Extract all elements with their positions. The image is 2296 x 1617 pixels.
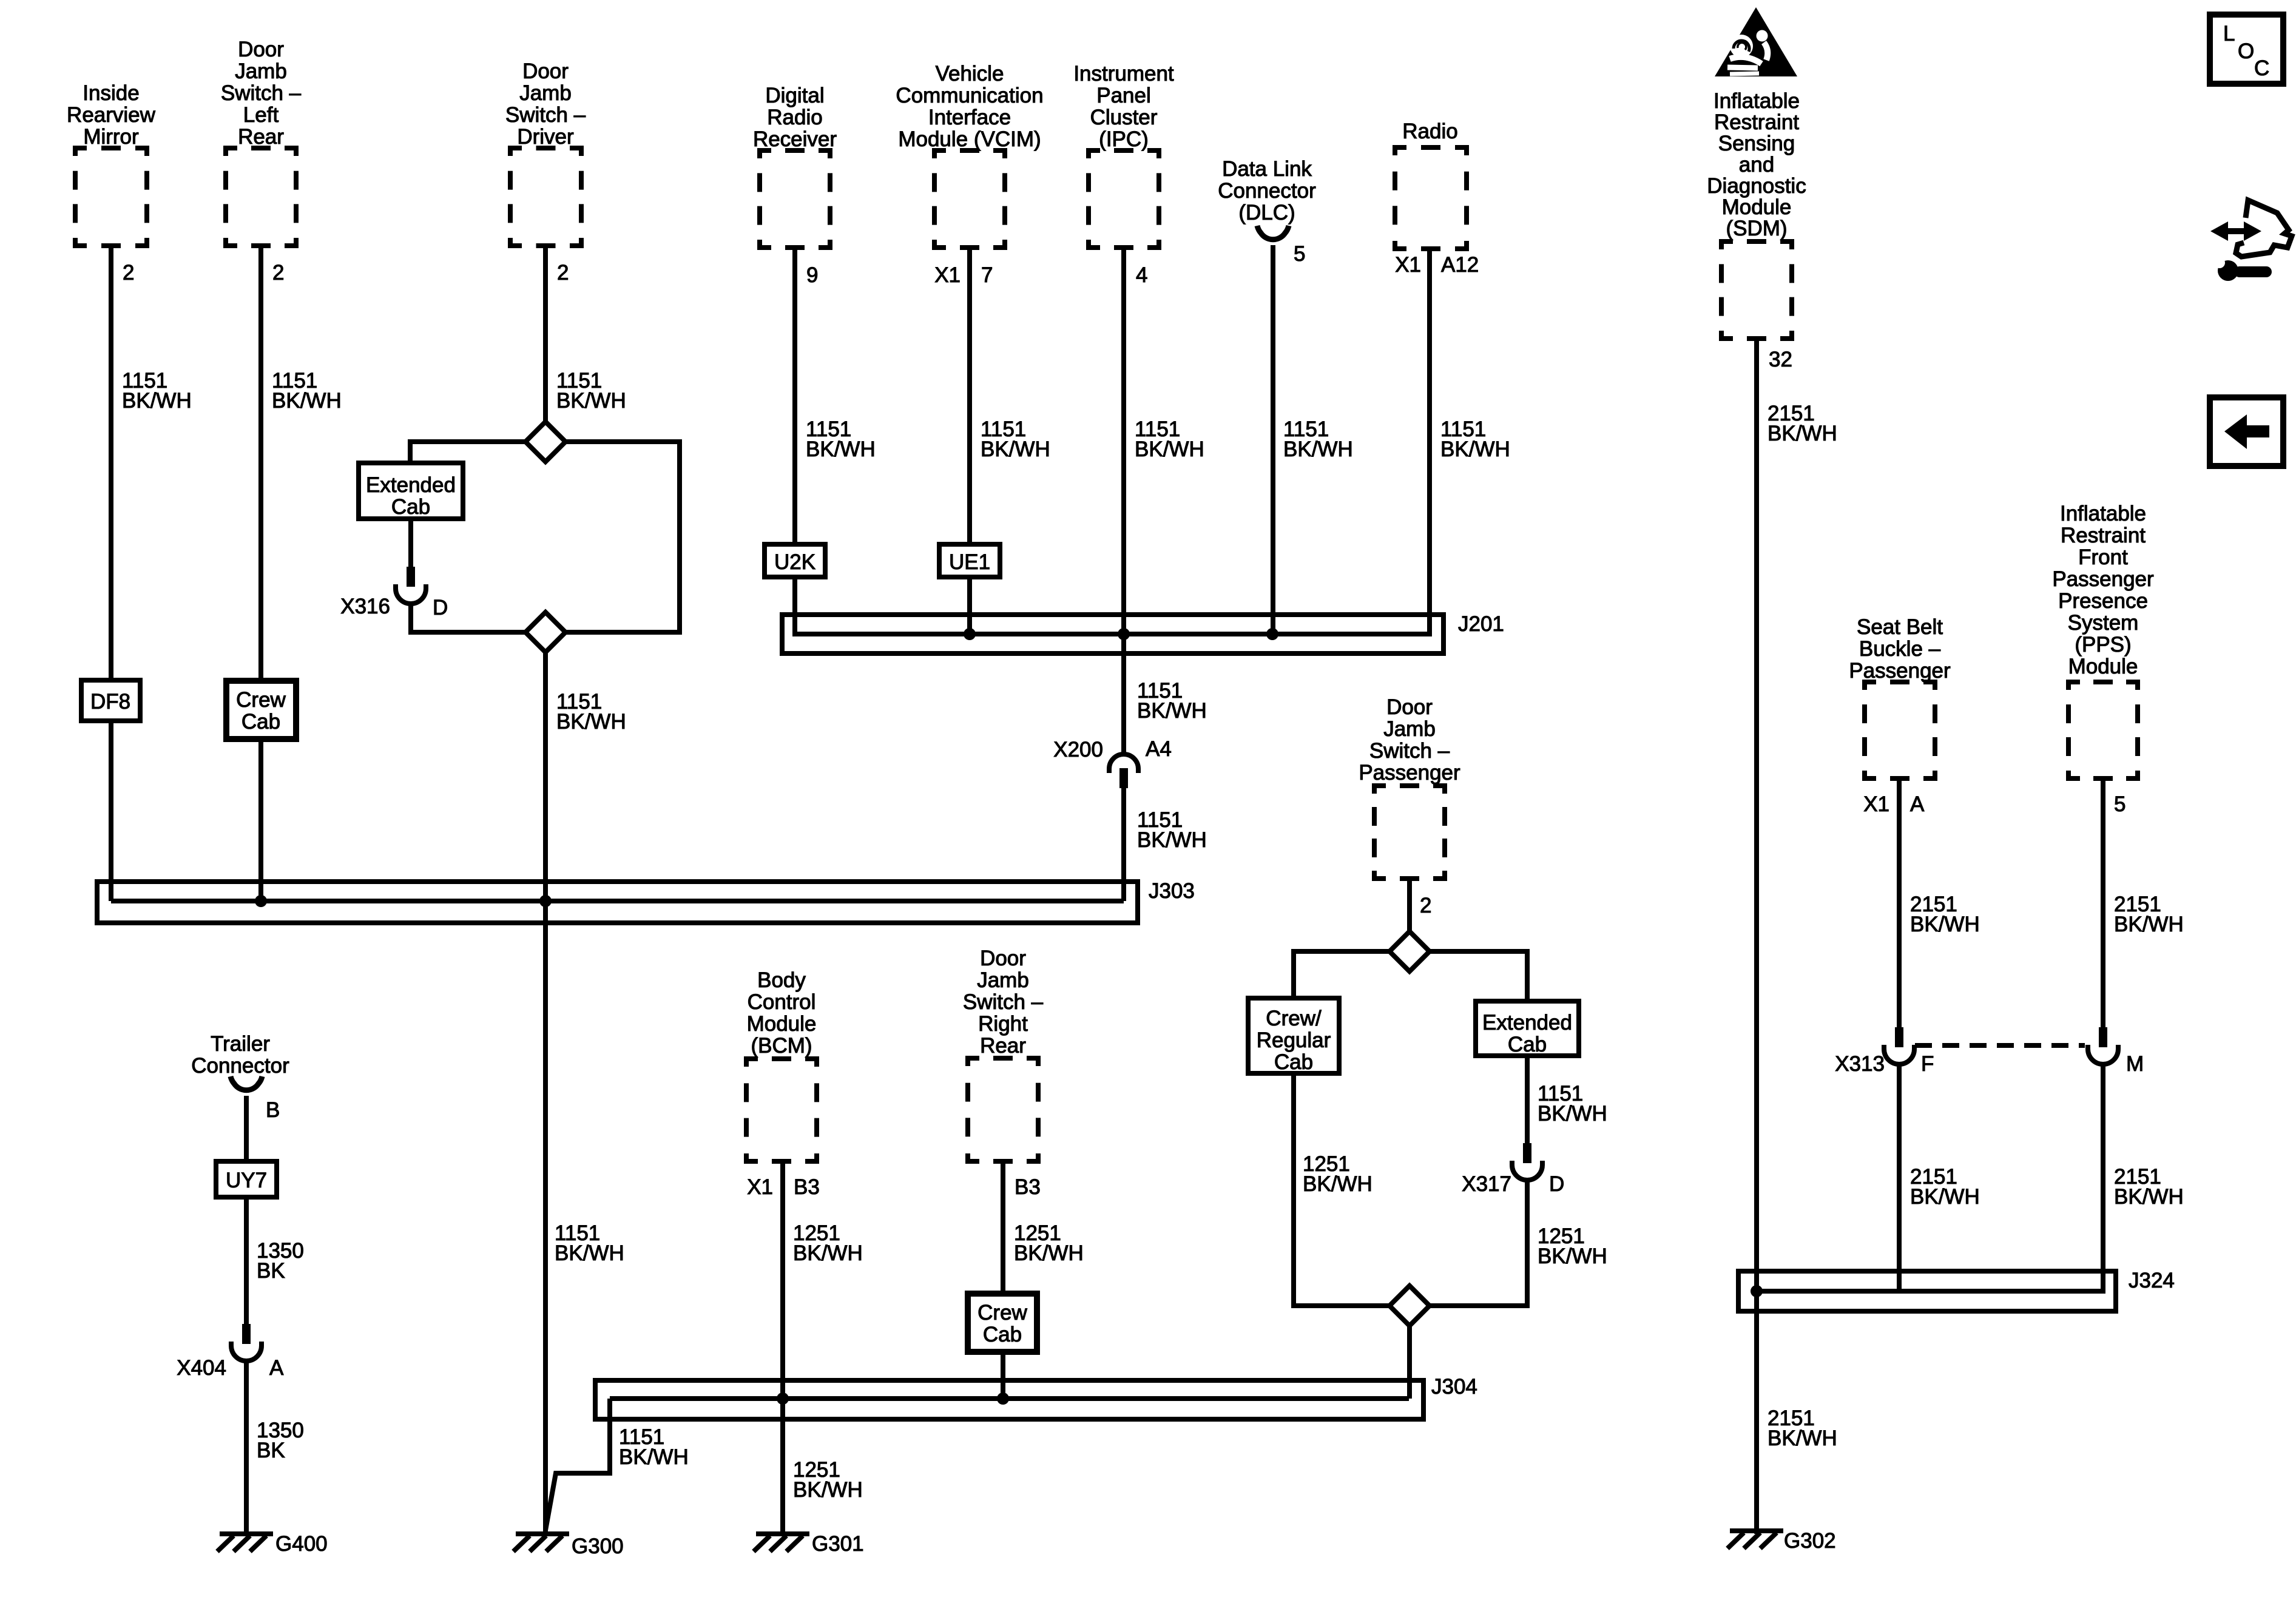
svg-text:C: C [2254,56,2269,80]
svg-text:(PPS): (PPS) [2075,633,2131,657]
svg-text:Presence: Presence [2058,589,2148,613]
svg-text:J303: J303 [1149,879,1195,903]
connector box: Radio [1393,145,1406,150]
connector box: BCM [744,1056,758,1061]
wire: X317 to diamond4 [1430,1178,1527,1306]
svg-text:B3: B3 [1015,1175,1041,1199]
svg-text:Door: Door [238,38,284,61]
svg-text:BK/WH: BK/WH [556,389,626,413]
svg-text:Communication: Communication [896,84,1043,107]
svg-text:Door: Door [980,947,1026,970]
svg-text:Switch –: Switch – [963,990,1044,1014]
connector box: Digital Radio Receiver [757,148,771,153]
svg-text:Extended: Extended [1482,1011,1572,1035]
icon: back arrow box [2210,397,2283,466]
svg-text:Instrument: Instrument [1073,62,1174,86]
svg-text:Seat Belt: Seat Belt [1857,615,1943,639]
svg-text:4: 4 [1136,263,1147,287]
svg-text:UE1: UE1 [949,550,990,574]
bus J324 inner line [1757,1289,2103,1294]
svg-text:Crew/: Crew/ [1266,1007,1322,1030]
svg-text:Regular: Regular [1257,1028,1331,1052]
svg-text:Diagnostic: Diagnostic [1707,174,1806,198]
svg-text:(DLC): (DLC) [1238,201,1295,224]
svg-text:Interface: Interface [928,106,1011,129]
svg-text:BK/WH: BK/WH [2114,913,2184,936]
svg-text:BK/WH: BK/WH [1303,1172,1373,1196]
wire: X316 to diamond2 [411,602,525,632]
svg-text:Digital: Digital [765,84,824,107]
svg-text:Door: Door [522,59,569,83]
svg-text:Passenger: Passenger [2052,567,2154,591]
option box UE1 [939,544,1000,577]
connector box: VCIM [932,148,946,153]
wire: X404 to G400 [244,1359,249,1534]
option box UY7 [216,1161,277,1197]
svg-text:Body: Body [757,968,806,992]
wire: extended cab down to X316 [408,519,413,568]
svg-text:B3: B3 [794,1175,820,1199]
svg-text:X313: X313 [1835,1052,1885,1076]
svg-text:A12: A12 [1441,253,1479,277]
svg-text:BK/WH: BK/WH [1768,422,1837,445]
svg-text:G302: G302 [1784,1529,1836,1553]
svg-text:Jamb: Jamb [235,59,287,83]
svg-text:BK/WH: BK/WH [122,389,192,413]
wire: UY7 to X404 [244,1197,249,1325]
connector box: IPC [1086,148,1100,153]
svg-text:Jamb: Jamb [519,81,572,105]
svg-text:Rear: Rear [238,125,284,149]
wire: PPS to M connector [2101,778,2105,1028]
wire: crew cab down to diamond4 [1294,1073,1389,1306]
svg-text:A: A [269,1356,284,1380]
wire: DRR down to U2K [792,248,797,546]
connector box: Door Jamb Switch - Left Rear [223,146,237,150]
svg-text:and: and [1739,153,1774,177]
svg-text:Crew: Crew [236,688,286,712]
svg-text:BK/WH: BK/WH [1910,913,1980,936]
wire: mirror 1151 BK/WH vertical [109,246,113,901]
svg-text:BK/WH: BK/WH [272,389,342,413]
svg-text:Switch –: Switch – [221,81,302,105]
option box Extended Cab (passenger) [1476,1001,1579,1056]
svg-text:Rear: Rear [980,1034,1026,1058]
option box U2K [765,544,825,577]
wire: driver jamb to splice diamond [543,246,548,422]
connector box: Door Jamb Switch - Passenger [1372,783,1386,788]
svg-text:(SDM): (SDM) [1726,217,1787,240]
svg-text:Connector: Connector [191,1054,289,1078]
connector box: Door Jamb Switch - Driver [508,146,522,150]
svg-text:BK/WH: BK/WH [1014,1241,1084,1265]
svg-text:Inside: Inside [83,81,139,105]
svg-text:Radio: Radio [767,106,822,129]
wire: diamond1 left branch [410,442,525,463]
wire: U2K to J201 [795,578,816,634]
svg-text:Front: Front [2078,545,2128,569]
svg-text:Restraint: Restraint [1714,110,1799,134]
option box Crew Cab (right rear) [968,1294,1037,1352]
svg-text:Restraint: Restraint [2061,524,2146,547]
svg-text:Extended: Extended [366,473,456,497]
bus J303 outer [97,882,1138,923]
svg-text:BK: BK [257,1259,285,1283]
svg-text:Buckle –: Buckle – [1859,637,1941,661]
svg-text:BK: BK [257,1439,285,1462]
svg-text:A: A [1910,792,1925,816]
connector X200 [1109,754,1138,773]
svg-text:Vehicle: Vehicle [936,62,1004,86]
splice diamond (passenger lower) [1389,1286,1430,1326]
svg-text:Left: Left [243,103,279,127]
wire: SDM to G302 [1754,339,1759,1534]
connector M (X313 mate) [2099,1027,2107,1047]
svg-text:BK/WH: BK/WH [1137,699,1207,723]
wire: diamond1 right branch loop [566,442,680,632]
svg-text:BK/WH: BK/WH [806,437,876,461]
icon: airbag warning triangle [1715,7,1797,76]
svg-text:2: 2 [557,261,569,285]
wire: diamond3 right branch [1430,951,1527,1001]
dashed link X313 to M [1915,1043,2085,1048]
svg-text:Cluster: Cluster [1090,106,1158,129]
option box DF8 [81,680,140,721]
svg-text:BK/WH: BK/WH [556,710,626,734]
connector X316 [407,567,415,587]
wire: X200 to J303 [1121,788,1126,901]
splice diamond (driver lower) [525,612,566,652]
svg-text:G400: G400 [275,1532,328,1556]
svg-text:Radio: Radio [1402,120,1457,143]
svg-text:J324: J324 [2129,1269,2175,1292]
svg-text:U2K: U2K [774,550,815,574]
wire: UE1 to J201 [967,578,972,634]
wire: driver jamb below diamond2 to G300 [543,652,548,1534]
svg-text:Control: Control [748,990,816,1014]
ground G302 [1730,1528,1783,1533]
svg-text:BK/WH: BK/WH [793,1478,863,1502]
svg-text:M: M [2126,1052,2144,1076]
svg-text:5: 5 [2114,792,2125,816]
connector X313 [1895,1027,1903,1047]
connector box: Door Jamb Switch - Right Rear [965,1056,979,1061]
svg-text:BK/WH: BK/WH [1538,1244,1607,1268]
svg-text:Module: Module [747,1012,817,1036]
junction dot J324 SDM [1751,1285,1763,1297]
connector box: Inside Rearview Mirror [73,146,87,150]
connector X317 [1523,1143,1531,1163]
bus J324 outer [1738,1271,2116,1311]
connector X404 [242,1324,251,1344]
svg-text:Inflatable: Inflatable [2060,502,2146,525]
svg-text:Cab: Cab [391,495,430,519]
svg-text:Module: Module [2068,655,2138,678]
svg-text:BK/WH: BK/WH [1135,437,1204,461]
svg-text:X317: X317 [1462,1172,1511,1196]
svg-text:Switch –: Switch – [1369,739,1450,763]
svg-text:Jamb: Jamb [1383,717,1436,741]
junction dot J303 left-rear [255,895,267,907]
svg-text:O: O [2238,39,2254,63]
connector box: SDM [1719,239,1733,244]
svg-text:BK/WH: BK/WH [555,1241,624,1265]
option box Crew Cab (left rear) [226,681,296,739]
svg-text:Door: Door [1386,695,1433,719]
svg-text:Right: Right [978,1012,1028,1036]
svg-text:Data Link: Data Link [1222,157,1312,181]
svg-text:D: D [1549,1172,1564,1196]
wire: trailer to UY7 [244,1096,249,1163]
svg-text:X1: X1 [1863,792,1889,816]
svg-text:32: 32 [1769,348,1792,371]
splice diamond (passenger upper) [1389,931,1430,971]
svg-text:BK/WH: BK/WH [793,1241,863,1265]
svg-text:J304: J304 [1431,1375,1477,1399]
connector box: Seat Belt Buckle [1862,680,1876,684]
svg-text:G300: G300 [572,1534,624,1558]
svg-text:BK/WH: BK/WH [2114,1185,2184,1209]
wire: Radio to J201 [1414,249,1430,634]
svg-text:Module: Module [1722,195,1792,219]
svg-text:7: 7 [981,263,993,287]
svg-text:(IPC): (IPC) [1099,127,1149,151]
wire: BCM through J304 to G301 [780,1161,785,1534]
svg-text:Cab: Cab [1508,1033,1547,1056]
svg-text:G301: G301 [812,1532,864,1556]
svg-text:2: 2 [1420,894,1431,917]
svg-text:Jamb: Jamb [977,968,1029,992]
svg-text:Connector: Connector [1218,179,1316,203]
wire: DLC to J201 [1271,245,1275,634]
svg-text:L: L [2223,22,2235,46]
splice diamond (driver upper) [525,422,566,462]
bus J304 outer [595,1380,1423,1419]
svg-text:BK/WH: BK/WH [981,437,1050,461]
svg-text:X316: X316 [340,595,390,618]
svg-text:D: D [433,596,448,619]
wire: left rear 1151 BK/WH vertical [258,246,263,901]
svg-text:UY7: UY7 [226,1169,267,1192]
svg-text:X404: X404 [177,1356,226,1380]
bus J303 inner line [111,899,1124,903]
wire: diamond4 to J304 [1407,1326,1412,1399]
svg-text:Passenger: Passenger [1359,761,1460,785]
junction dot J201 DLC [1266,628,1278,640]
svg-text:B: B [266,1098,280,1122]
svg-text:X200: X200 [1053,738,1103,761]
svg-text:(BCM): (BCM) [751,1034,812,1058]
svg-text:Trailer: Trailer [211,1032,270,1056]
svg-text:Cab: Cab [1274,1050,1313,1074]
wire: seat belt to X313 [1897,778,1902,1028]
svg-text:F: F [1921,1052,1934,1076]
svg-text:Crew: Crew [977,1301,1027,1325]
wire: extended cab down to X317 [1525,1056,1530,1144]
wire: right rear to J304 [1001,1161,1005,1399]
svg-text:Rearview: Rearview [67,103,156,127]
svg-text:BK/WH: BK/WH [619,1445,689,1469]
icon: LOC box [2210,15,2283,84]
junction dot J201 IPC [1118,628,1130,640]
wire: M to J324 [2087,1062,2103,1291]
ground G301 [756,1531,809,1536]
svg-text:2: 2 [123,261,134,285]
svg-text:Inflatable: Inflatable [1714,89,1800,113]
svg-text:9: 9 [806,263,818,287]
svg-text:BK/WH: BK/WH [1440,437,1510,461]
svg-text:BK/WH: BK/WH [1137,828,1207,852]
svg-text:BK/WH: BK/WH [1538,1102,1607,1126]
svg-text:BK/WH: BK/WH [1283,437,1353,461]
svg-text:A4: A4 [1146,737,1172,761]
junction dot J304 right-rear [997,1393,1009,1405]
svg-text:Receiver: Receiver [753,127,837,151]
bus J201 outer [782,615,1443,653]
icon: connector face with double arrow and wrench [2210,200,2292,281]
junction dot J304 BCM [777,1393,789,1405]
svg-text:Driver: Driver [517,125,574,149]
ground G300 [516,1531,569,1536]
svg-text:Cab: Cab [241,710,280,734]
wire: VCIM down to UE1 [967,248,972,546]
svg-text:2: 2 [272,261,284,285]
option box Crew/Regular Cab [1248,998,1339,1073]
junction dot J303 driver [539,895,552,907]
svg-text:J201: J201 [1458,612,1504,636]
connector: DLC half-circle [1257,226,1289,240]
svg-text:System: System [2068,611,2139,635]
svg-text:Passenger: Passenger [1849,659,1951,683]
svg-text:X1: X1 [747,1175,773,1199]
wire: X313 to J324 [1897,1062,1902,1291]
wire: J304 to G300 elbow [545,1399,610,1530]
svg-text:BK/WH: BK/WH [1768,1426,1837,1450]
bus J201 inner line [795,632,1430,636]
svg-text:5: 5 [1294,242,1305,266]
ground G400 [220,1531,273,1536]
svg-text:Cab: Cab [983,1323,1022,1346]
svg-text:X1: X1 [1395,253,1421,277]
svg-text:Mirror: Mirror [83,125,139,149]
wire: diamond3 left branch [1294,951,1389,998]
connector: Trailer half-circle [231,1076,262,1090]
connector box: PPS Module [2066,680,2080,684]
wire: IPC down through J201 [1121,248,1126,755]
wire: passenger jamb to diamond3 [1407,879,1412,931]
option box Extended Cab (driver) [359,463,463,519]
svg-text:BK/WH: BK/WH [1910,1185,1980,1209]
bus J304 inner line [610,1396,1409,1401]
svg-text:Module (VCIM): Module (VCIM) [898,127,1041,151]
svg-text:Panel: Panel [1096,84,1151,107]
svg-text:Switch –: Switch – [505,103,586,127]
svg-text:DF8: DF8 [90,690,130,714]
junction dot J201 VCIM [964,628,976,640]
svg-text:Sensing: Sensing [1718,132,1795,155]
svg-text:X1: X1 [934,263,961,287]
